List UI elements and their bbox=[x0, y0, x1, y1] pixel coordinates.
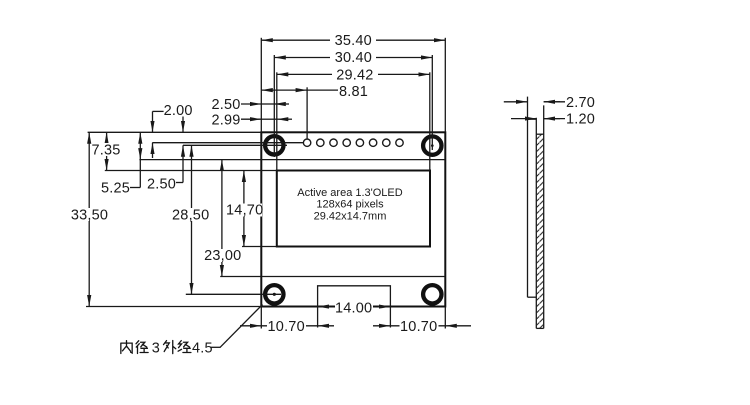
svg-text:23,00: 23,00 bbox=[204, 248, 241, 264]
svg-text:28,50: 28,50 bbox=[172, 208, 209, 224]
svg-text:2.50: 2.50 bbox=[211, 97, 240, 113]
svg-text:2.99: 2.99 bbox=[211, 113, 240, 129]
svg-text:10.70: 10.70 bbox=[400, 319, 437, 335]
svg-text:Active area 1.3'OLED: Active area 1.3'OLED bbox=[297, 187, 402, 199]
svg-text:7.35: 7.35 bbox=[91, 143, 120, 159]
svg-text:1.20: 1.20 bbox=[566, 112, 595, 128]
svg-text:4.5: 4.5 bbox=[192, 341, 213, 357]
svg-text:29.42x14.7mm: 29.42x14.7mm bbox=[314, 211, 387, 223]
svg-text:10.70: 10.70 bbox=[268, 319, 305, 335]
svg-text:2.70: 2.70 bbox=[566, 95, 595, 111]
svg-text:35.40: 35.40 bbox=[335, 33, 372, 49]
svg-text:29.42: 29.42 bbox=[336, 67, 373, 83]
svg-text:5.25: 5.25 bbox=[101, 181, 130, 197]
svg-text:8.81: 8.81 bbox=[339, 84, 368, 100]
svg-text:2.00: 2.00 bbox=[164, 103, 193, 119]
svg-text:33,50: 33,50 bbox=[71, 208, 108, 224]
svg-text:14.00: 14.00 bbox=[335, 301, 372, 317]
svg-text:30.40: 30.40 bbox=[335, 50, 372, 66]
svg-text:14,70: 14,70 bbox=[226, 203, 263, 219]
svg-text:128x64 pixels: 128x64 pixels bbox=[316, 199, 384, 211]
svg-text:2.50: 2.50 bbox=[147, 176, 176, 192]
svg-text:3: 3 bbox=[152, 341, 160, 357]
